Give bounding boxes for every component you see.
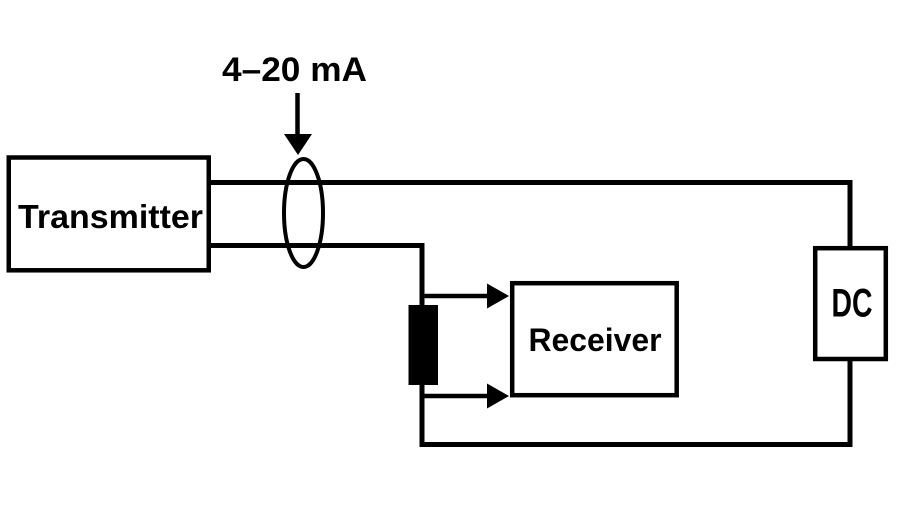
arrowhead into receiver top bbox=[487, 284, 509, 309]
svg-text:4–20 mA: 4–20 mA bbox=[222, 51, 367, 89]
wire arrow to receiver top bbox=[422, 294, 490, 299]
wire transmitter bottom to vertical drop bbox=[209, 243, 425, 444]
wire bottom return (resistor to DC supply) bbox=[420, 359, 853, 447]
wire top loop (transmitter to DC supply) bbox=[209, 180, 850, 248]
svg-text:Transmitter: Transmitter bbox=[18, 198, 203, 235]
receiver box bbox=[512, 283, 677, 395]
annotation arrow shaft bbox=[295, 93, 300, 136]
resistor (loop load) bbox=[409, 305, 439, 385]
wire arrow to receiver bottom bbox=[422, 394, 490, 399]
DC supply box bbox=[815, 248, 886, 359]
annotation arrow head bbox=[284, 134, 312, 155]
transmitter box bbox=[9, 158, 209, 271]
svg-text:DC: DC bbox=[832, 282, 873, 326]
current-loop ellipse bbox=[284, 159, 323, 267]
svg-text:Receiver: Receiver bbox=[529, 322, 662, 358]
arrowhead into receiver bottom bbox=[487, 384, 509, 409]
